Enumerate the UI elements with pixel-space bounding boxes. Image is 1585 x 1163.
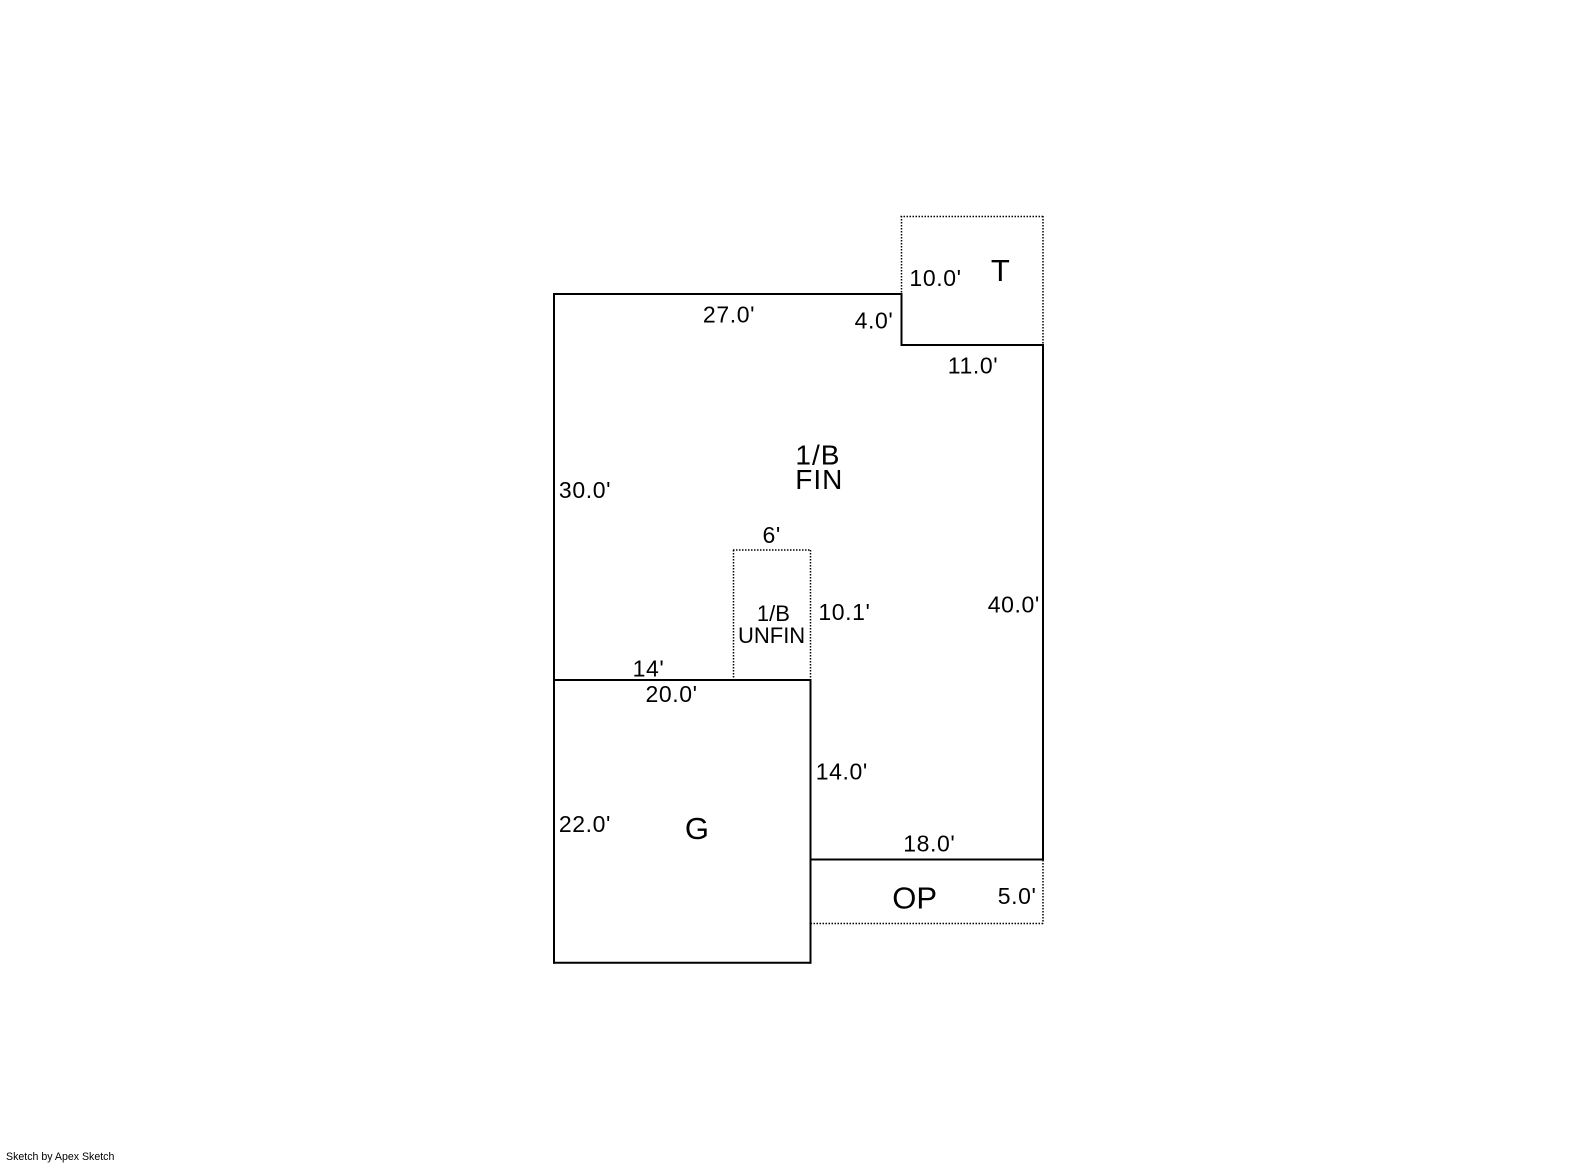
svg-text:FIN: FIN (795, 464, 843, 495)
svg-text:27.0': 27.0' (703, 301, 755, 327)
svg-text:14': 14' (633, 655, 665, 681)
svg-text:18.0': 18.0' (903, 830, 955, 856)
svg-text:14.0': 14.0' (816, 758, 868, 784)
svg-text:4.0': 4.0' (855, 308, 894, 334)
svg-text:T: T (991, 253, 1010, 288)
svg-text:Sketch by Apex Sketch: Sketch by Apex Sketch (6, 1151, 114, 1163)
svg-text:5.0': 5.0' (998, 883, 1037, 909)
svg-text:22.0': 22.0' (559, 811, 611, 837)
svg-text:10.0': 10.0' (909, 265, 961, 291)
svg-text:OP: OP (892, 880, 937, 915)
svg-text:G: G (685, 811, 709, 846)
svg-text:10.1': 10.1' (818, 599, 870, 625)
svg-text:6': 6' (763, 522, 781, 548)
svg-text:20.0': 20.0' (646, 681, 698, 707)
svg-text:30.0': 30.0' (559, 477, 611, 503)
svg-text:UNFIN: UNFIN (738, 623, 805, 648)
svg-text:11.0': 11.0' (948, 352, 998, 378)
svg-text:40.0': 40.0' (988, 591, 1040, 617)
